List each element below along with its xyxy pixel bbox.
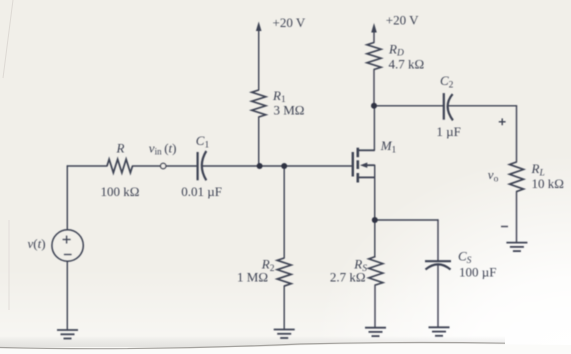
svg-text:R: R [116, 141, 125, 156]
svg-text:100 µF: 100 µF [459, 265, 496, 280]
svg-text:100 kΩ: 100 kΩ [101, 184, 140, 199]
svg-text:v(t): v(t) [28, 236, 46, 251]
svg-text:vin (t): vin (t) [149, 141, 177, 157]
svg-text:3 MΩ: 3 MΩ [274, 103, 305, 118]
svg-text:+20 V: +20 V [386, 13, 419, 28]
svg-text:1 MΩ: 1 MΩ [237, 269, 268, 284]
svg-text:1 µF: 1 µF [436, 124, 460, 139]
svg-text:0.01 µF: 0.01 µF [181, 184, 222, 199]
svg-text:+20 V: +20 V [273, 15, 306, 30]
svg-text:10 kΩ: 10 kΩ [532, 176, 564, 191]
svg-text:4.7 kΩ: 4.7 kΩ [389, 57, 425, 72]
svg-text:2.7 kΩ: 2.7 kΩ [330, 270, 366, 285]
